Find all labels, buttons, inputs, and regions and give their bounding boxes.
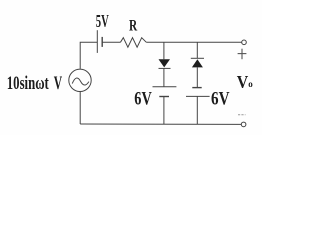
battery 5V xyxy=(97,30,102,53)
diode D1 (cathode down) xyxy=(159,59,171,68)
wire source to bottom rail xyxy=(79,92,81,125)
wire left 6V battery to bottom rail xyxy=(163,97,165,125)
bottom rail wire xyxy=(80,123,241,125)
diode D2 (cathode up) xyxy=(191,58,204,67)
plus sign at output xyxy=(238,49,247,60)
resistor R xyxy=(121,38,147,48)
svg-text:5V: 5V xyxy=(96,11,109,31)
svg-text:6V: 6V xyxy=(211,89,230,109)
top output terminal xyxy=(242,40,247,45)
svg-text:10sinωt: 10sinωt xyxy=(7,73,49,94)
svg-text:6V: 6V xyxy=(134,89,152,109)
wire right 6V battery to bottom rail xyxy=(196,96,198,124)
battery 6V right xyxy=(186,88,210,97)
wire top-left (source to battery) xyxy=(80,42,97,69)
battery 6V left xyxy=(153,87,177,97)
label Vo xyxy=(237,72,253,92)
wire D2 to right 6V battery xyxy=(196,67,198,87)
svg-text:o: o xyxy=(248,80,253,90)
wire D1 to left 6V battery xyxy=(163,68,165,86)
svg-text:R: R xyxy=(129,18,138,35)
wire battery to resistor xyxy=(102,41,120,43)
bottom output terminal xyxy=(241,122,246,127)
ac source circle xyxy=(69,69,91,91)
svg-text:V: V xyxy=(54,73,63,94)
wire branch 1 stub from top rail xyxy=(163,42,165,59)
label 10sin wt V xyxy=(7,73,63,94)
wire branch 2 stub from top rail xyxy=(196,42,198,58)
wire resistor to top terminal xyxy=(146,41,241,43)
svg-text:V: V xyxy=(237,72,249,92)
ac source sine xyxy=(72,78,89,85)
minus sign at output xyxy=(238,114,246,116)
